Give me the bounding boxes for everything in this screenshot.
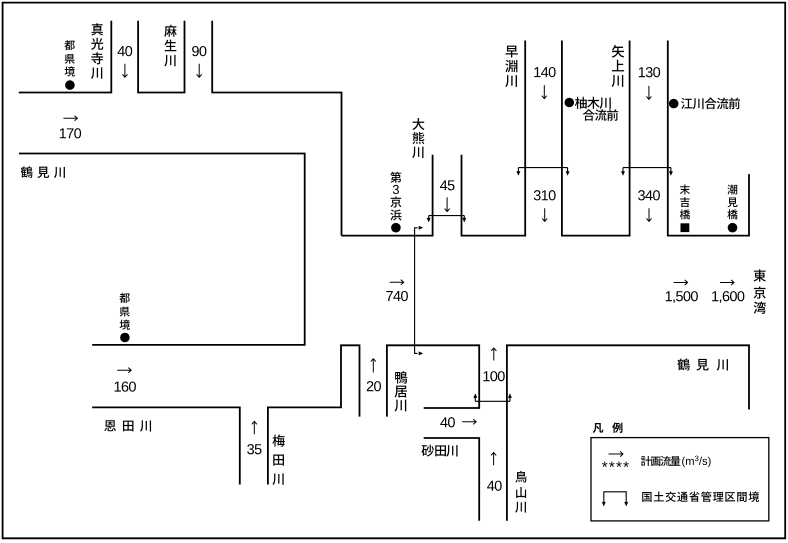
flow arrow 740 main stem bbox=[390, 280, 404, 285]
flow value 100 Toriyama bbox=[483, 371, 504, 381]
label prefecture boundary (upper) Tokenkyo bbox=[64, 40, 74, 76]
MLIT boundary symbol Toriyama R. bbox=[473, 393, 512, 401]
flow arrow 140 Hayabuchi bbox=[542, 85, 547, 99]
flow arrow 35 Umeda bbox=[252, 421, 257, 434]
Hayabuchi R. east wall + north bank seg3 + Yagami R. west wall up bbox=[562, 41, 630, 236]
flow value 20 Kamoi bbox=[367, 381, 381, 391]
label Shiomi bridge bbox=[727, 185, 737, 220]
flow arrow 170 bbox=[63, 116, 77, 121]
dot prefecture boundary (Onda R.) bbox=[120, 333, 130, 343]
MLIT boundary symbol Hayabuchi R. bbox=[516, 168, 569, 176]
MLIT boundary symbol main stem (vertical with right arrows) bbox=[415, 226, 424, 356]
label Hayabuchi R. bbox=[505, 46, 518, 87]
flow value 140 Hayabuchi bbox=[534, 67, 555, 77]
flow arrow 1500 bbox=[674, 280, 688, 285]
flow value 1,500 bbox=[666, 291, 698, 303]
label Dai-3 Keihin bbox=[390, 172, 401, 221]
label Sunada R. bbox=[421, 445, 457, 457]
flow value 40 Toriyama lower bbox=[487, 481, 502, 491]
flow value 90 Asao bbox=[192, 46, 206, 56]
flow arrow 45 Okuma bbox=[445, 197, 450, 211]
dot Shiomi bridge bbox=[728, 223, 738, 233]
Kamoi R. east wall + south bank seg + Toriyama R. west wall + Sunada R. north bank bbox=[387, 345, 479, 416]
label Onda R. bbox=[104, 420, 151, 431]
dot prefecture boundary (upper) bbox=[65, 80, 75, 90]
Asao R. east wall + north bank to bend + bend east wall down bbox=[212, 21, 341, 236]
square Sueyoshi bridge bbox=[681, 223, 690, 232]
legend text (m3/s) bbox=[682, 456, 710, 468]
legend text MLIT managed section boundary bbox=[642, 491, 759, 501]
legend flow arrow bbox=[609, 451, 623, 456]
legend text planned flow bbox=[641, 456, 680, 466]
flow arrow 40 Sunada bbox=[462, 419, 476, 424]
label Tokyo Bay bbox=[754, 269, 766, 313]
flow arrow 1600 bbox=[720, 280, 734, 285]
dot Egawa confluence bbox=[669, 99, 679, 109]
label Yunokigawa confluence line2 bbox=[583, 109, 618, 121]
flow value 130 Yagami bbox=[639, 67, 660, 77]
flow arrow 90 Asao bbox=[197, 64, 202, 77]
flow arrow 100 Toriyama bbox=[491, 348, 496, 361]
flow value 170 bbox=[60, 128, 81, 138]
flow arrow 310 Hayabuchi bbox=[542, 208, 547, 221]
flow value 40 Sunada bbox=[440, 417, 455, 427]
flow value 35 Umeda bbox=[247, 444, 261, 454]
legend MLIT boundary symbol bbox=[602, 492, 628, 507]
flow value 340 Yagami bbox=[638, 190, 660, 200]
Tsurumi upper south bank + bend west wall down + Onda R. north bank bbox=[19, 154, 305, 345]
label Asao R. bbox=[164, 25, 176, 67]
Toriyama R. east wall + lower south bank + south coast wall bbox=[507, 345, 749, 521]
flow value 310 Hayabuchi bbox=[534, 190, 556, 200]
legend box bbox=[591, 438, 769, 521]
label prefecture boundary (Onda R.) bbox=[119, 293, 129, 330]
label Kamoi R. bbox=[395, 371, 408, 411]
flow arrow 130 Yagami bbox=[646, 86, 651, 99]
dot Yunokigawa confluence bbox=[565, 98, 575, 108]
label Sueyoshi bridge bbox=[680, 184, 690, 219]
label Tsurumi R. lower bbox=[677, 358, 728, 370]
label Yunokigawa confluence line1 bbox=[575, 97, 611, 109]
label Egawa confluence bbox=[681, 98, 740, 110]
flow value 40 Shinkoji bbox=[118, 46, 133, 56]
Sunada R. south bank + Toriyama R. west wall lower bbox=[424, 438, 480, 521]
flow arrow 40 Shinkoji bbox=[122, 64, 127, 77]
label Tsurumi R. upper bbox=[21, 166, 65, 178]
flow arrow 160 Onda bbox=[117, 368, 131, 373]
flow arrow 40 Toriyama lower bbox=[491, 453, 496, 466]
Umeda R. east wall + Onda south bank east + spit + Kamoi R. west wall bbox=[268, 345, 360, 484]
Yagami R. east wall + north bank seg4 + north coast wall up bbox=[668, 41, 749, 236]
middle north bank seg1 + Okuma R. west wall up bbox=[342, 155, 433, 236]
label Toriyama R. bbox=[515, 471, 526, 513]
label Okuma R. bbox=[412, 118, 424, 158]
flow arrow 340 Yagami bbox=[647, 208, 652, 221]
label Shinkoji R. bbox=[91, 23, 103, 79]
label Yagami R. bbox=[612, 45, 625, 87]
legend title Hanrei bbox=[593, 423, 623, 433]
label Umeda R. bbox=[272, 435, 284, 485]
Tsurumi upper north bank west segment + Shinkoji R. west wall bbox=[19, 21, 112, 93]
Okuma R. east wall + north bank seg2 + Hayabuchi R. west wall up bbox=[462, 41, 526, 236]
Onda R. south bank + Umeda R. west wall bbox=[92, 407, 240, 484]
legend asterisks bbox=[602, 462, 629, 467]
flow arrow 20 Kamoi bbox=[371, 359, 376, 373]
flow value 160 Onda bbox=[115, 381, 136, 391]
flow value 740 main stem bbox=[386, 291, 408, 301]
dot Dai-3 Keihin bbox=[391, 223, 401, 233]
MLIT boundary symbol Okuma R. bbox=[427, 216, 467, 223]
flow value 45 Okuma bbox=[440, 180, 455, 190]
Shinkoji R. east wall + north bank + Asao R. west wall bbox=[138, 21, 184, 93]
MLIT boundary symbol Yagami R. bbox=[621, 168, 673, 176]
flow value 1,600 bbox=[712, 291, 744, 303]
